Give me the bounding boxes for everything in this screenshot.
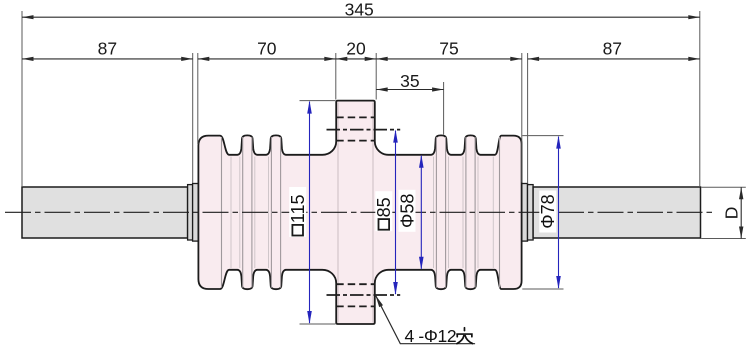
svg-text:87: 87 [98, 38, 117, 58]
svg-text:20: 20 [346, 38, 366, 58]
svg-text:70: 70 [257, 38, 277, 58]
svg-text:4 -Φ12: 4 -Φ12 [405, 326, 457, 346]
svg-text:85: 85 [374, 197, 394, 217]
svg-text:Φ78: Φ78 [538, 194, 558, 228]
svg-text:Φ58: Φ58 [397, 194, 417, 228]
svg-text:35: 35 [400, 71, 419, 91]
svg-text:115: 115 [288, 194, 308, 223]
svg-text:D: D [722, 207, 742, 220]
svg-text:87: 87 [603, 38, 622, 58]
svg-text:345: 345 [345, 0, 374, 20]
svg-text:75: 75 [439, 38, 458, 58]
